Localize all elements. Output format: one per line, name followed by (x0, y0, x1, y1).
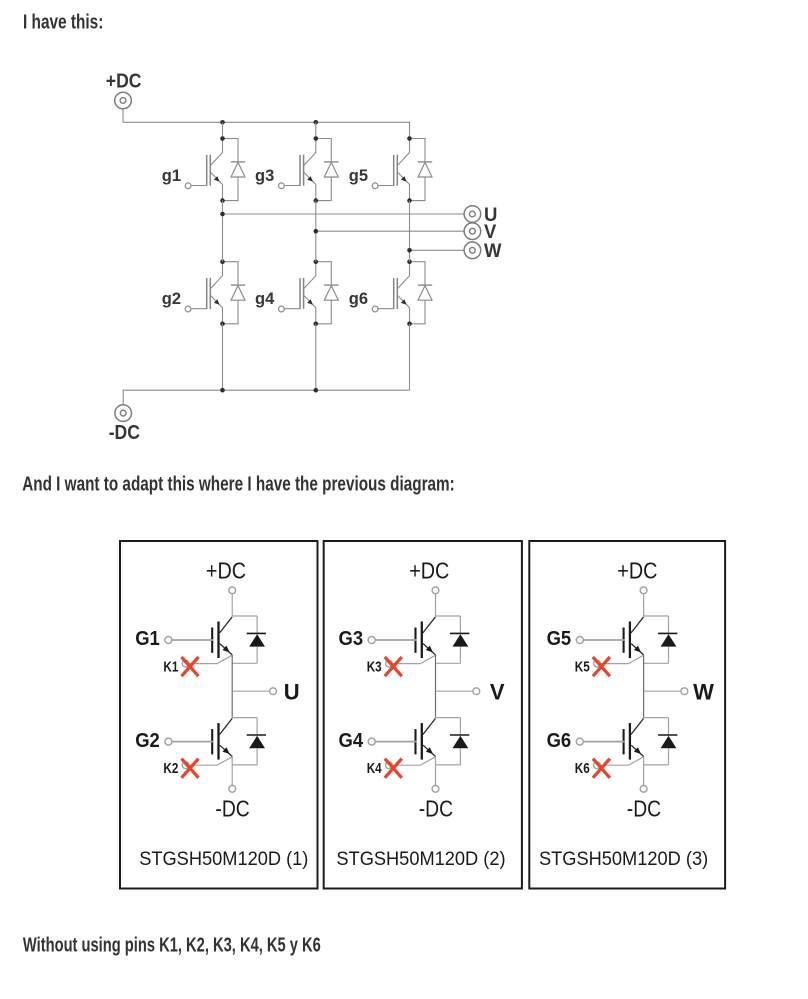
X mark over K1 (182, 657, 199, 676)
transistor G4 IGBT (368, 718, 469, 769)
svg-text:STGSH50M120D (3): STGSH50M120D (3) (539, 848, 708, 869)
terminal -DC (U box) (229, 785, 236, 792)
node rail-leg1 (220, 120, 225, 125)
terminal +DC (115, 92, 132, 109)
svg-text:g4: g4 (255, 290, 275, 308)
svg-text:STGSH50M120D (1): STGSH50M120D (1) (139, 848, 308, 869)
svg-text:G4: G4 (338, 729, 363, 752)
svg-text:U: U (284, 679, 300, 704)
terminal U (464, 206, 481, 223)
svg-text:g2: g2 (162, 290, 181, 308)
terminal -DC (115, 405, 132, 422)
svg-text:G1: G1 (135, 627, 160, 650)
module box STGSH50M120D (1) (120, 541, 318, 889)
svg-text:STGSH50M120D (2): STGSH50M120D (2) (336, 848, 505, 869)
transistor G2 IGBT (165, 718, 266, 769)
transistor g3 IGBT with freewheel diode (279, 136, 339, 203)
X mark over K3 (385, 657, 402, 676)
svg-text:I have this:: I have this: (23, 11, 103, 33)
terminal V (473, 688, 480, 695)
svg-text:V: V (490, 679, 505, 704)
terminal -DC (W box) (640, 785, 647, 792)
wire bottom DC- rail (123, 390, 409, 405)
svg-text:+DC: +DC (206, 558, 246, 584)
wire leg2 to bottom rail (315, 324, 317, 390)
terminal +DC (V box) (432, 587, 439, 594)
node rail-leg2 (314, 120, 319, 125)
node bottom rail leg2 (314, 388, 319, 393)
transistor g5 IGBT with freewheel diode (372, 136, 432, 203)
wire mid vertical (U box) (231, 655, 233, 718)
X mark over K5 (593, 657, 610, 676)
wire phase U (223, 213, 465, 215)
transistor G5 IGBT (576, 616, 677, 667)
X mark over K2 (182, 759, 199, 778)
svg-text:-DC: -DC (627, 797, 661, 822)
wire leg3 to bottom rail (409, 324, 411, 390)
node phase U on leg1 (220, 212, 225, 217)
svg-text:G3: G3 (338, 627, 363, 650)
terminal -DC (V box) (432, 785, 439, 792)
svg-text:-DC: -DC (419, 797, 453, 822)
module box STGSH50M120D (3) (529, 541, 725, 889)
wire mid vertical (V box) (435, 655, 437, 718)
terminal +DC (W box) (640, 587, 647, 594)
X mark over K6 (593, 759, 610, 778)
wire -DC drop (W box) (643, 757, 645, 786)
wire leg2 mid section (315, 201, 317, 262)
svg-text:g6: g6 (349, 290, 368, 308)
node bottom rail leg1 (220, 388, 225, 393)
wire top DC+ rail (123, 122, 410, 138)
svg-text:K3: K3 (367, 658, 382, 675)
svg-text:g5: g5 (349, 167, 368, 185)
svg-text:K2: K2 (163, 760, 178, 777)
wire leg2 rail drop (315, 122, 317, 138)
transistor g4 IGBT with freewheel diode (279, 259, 339, 326)
svg-text:W: W (484, 241, 502, 263)
svg-text:g3: g3 (255, 167, 274, 185)
svg-text:K5: K5 (575, 658, 590, 675)
svg-text:K4: K4 (367, 760, 382, 777)
terminal W (464, 242, 481, 259)
svg-text:K1: K1 (163, 658, 178, 675)
transistor g2 IGBT with freewheel diode (185, 259, 245, 326)
svg-text:g1: g1 (162, 167, 181, 185)
wire phase W (410, 249, 465, 251)
node phase V on leg2 (314, 229, 319, 234)
wire +DC drop (W box) (643, 594, 645, 616)
wire -DC drop (U box) (231, 757, 233, 786)
terminal V (464, 223, 481, 240)
svg-text:G6: G6 (547, 729, 572, 752)
wire phase V (316, 230, 464, 232)
svg-text:G2: G2 (135, 729, 160, 752)
wire +DC terminal to rail (122, 109, 124, 122)
svg-text:And I want to adapt this where: And I want to adapt this where I have th… (22, 472, 455, 494)
wire mid vertical (W box) (643, 655, 645, 718)
svg-text:+DC: +DC (409, 558, 449, 584)
wire leg3 mid section (409, 201, 411, 262)
module box STGSH50M120D (2) (324, 541, 522, 889)
transistor G1 IGBT (165, 616, 266, 667)
transistor g6 IGBT with freewheel diode (372, 259, 432, 326)
wire +DC drop (U box) (231, 594, 233, 616)
terminal U (270, 688, 277, 695)
wire output branch (W box) (644, 690, 682, 692)
svg-text:-DC: -DC (215, 797, 249, 822)
terminal +DC (U box) (229, 587, 236, 594)
svg-text:-DC: -DC (109, 421, 141, 443)
wire leg1 rail drop (222, 122, 224, 138)
transistor G6 IGBT (576, 718, 677, 769)
wire leg1 mid section (222, 201, 224, 262)
wire output branch (V box) (436, 690, 474, 692)
transistor g1 IGBT with freewheel diode (185, 136, 245, 203)
wire +DC drop (V box) (435, 594, 437, 616)
svg-text:K6: K6 (575, 760, 590, 777)
wire output branch (U box) (232, 690, 270, 692)
svg-text:Without using pins K1, K2, K3,: Without using pins K1, K2, K3, K4, K5 y … (23, 933, 321, 956)
wire leg1 to bottom rail (222, 324, 224, 390)
terminal W (681, 688, 688, 695)
svg-text:+DC: +DC (617, 558, 657, 584)
svg-text:W: W (693, 679, 714, 704)
X mark over K4 (385, 759, 402, 778)
svg-text:+DC: +DC (106, 69, 142, 91)
svg-text:G5: G5 (547, 627, 572, 650)
wire -DC drop (V box) (435, 757, 437, 786)
node phase W on leg3 (407, 248, 412, 253)
transistor G3 IGBT (368, 616, 469, 667)
